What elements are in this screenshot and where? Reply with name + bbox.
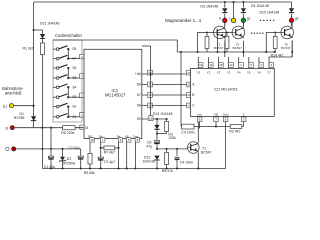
svg-text:Y5: Y5 xyxy=(247,71,251,75)
svg-text:D3 1N4148: D3 1N4148 xyxy=(201,4,219,8)
svg-text:C2 47µ: C2 47µ xyxy=(68,146,79,150)
svg-text:13: 13 xyxy=(148,93,152,97)
svg-text:S8: S8 xyxy=(72,47,76,51)
svg-text:R5 56k: R5 56k xyxy=(84,171,95,175)
svg-text:C4 100n: C4 100n xyxy=(181,130,194,134)
svg-text:L: L xyxy=(229,17,231,21)
svg-text:S4: S4 xyxy=(72,85,76,89)
svg-text:14: 14 xyxy=(209,63,213,67)
svg-text:Y1: Y1 xyxy=(207,71,211,75)
svg-text:Z: Z xyxy=(243,112,245,116)
svg-text:g4: g4 xyxy=(295,17,299,21)
svg-text:S2: S2 xyxy=(72,105,76,109)
svg-text:anschluß: anschluß xyxy=(5,91,22,96)
svg-text:MC145027: MC145027 xyxy=(105,93,126,98)
svg-text:BY296: BY296 xyxy=(14,116,25,120)
svg-text:15: 15 xyxy=(149,116,153,120)
svg-text:14: 14 xyxy=(148,104,152,108)
svg-text:100k: 100k xyxy=(168,136,176,140)
svg-text:Y6: Y6 xyxy=(257,71,261,75)
svg-text:Inh: Inh xyxy=(198,112,203,116)
svg-text:Y0: Y0 xyxy=(196,71,200,75)
svg-text:D8: D8 xyxy=(137,104,141,108)
svg-text:10: 10 xyxy=(90,138,94,142)
svg-text:Codierschalter: Codierschalter xyxy=(55,33,83,38)
svg-text:ZPD5V6: ZPD5V6 xyxy=(62,161,75,165)
svg-text:C4 100n: C4 100n xyxy=(180,161,193,165)
svg-text:Y3: Y3 xyxy=(227,71,231,75)
svg-text:R7 4k7: R7 4k7 xyxy=(104,150,115,154)
svg-text:Y4: Y4 xyxy=(237,71,241,75)
svg-text:S6: S6 xyxy=(72,66,76,70)
svg-text:Di: Di xyxy=(85,126,88,130)
svg-text:D13 1N4148: D13 1N4148 xyxy=(153,112,173,116)
svg-text:Y7: Y7 xyxy=(267,71,271,75)
svg-text:D7: D7 xyxy=(137,93,141,97)
svg-text:BC547: BC547 xyxy=(281,46,291,50)
svg-text:Y2: Y2 xyxy=(217,71,221,75)
svg-text:r1: r1 xyxy=(219,17,222,21)
svg-text:D11 1N4148: D11 1N4148 xyxy=(40,22,59,26)
svg-text:12: 12 xyxy=(229,63,233,67)
svg-text:1N4148: 1N4148 xyxy=(143,160,155,164)
svg-text:13: 13 xyxy=(199,63,203,67)
svg-text:C3 4µ7: C3 4µ7 xyxy=(104,160,115,164)
svg-text:B: B xyxy=(192,93,194,97)
svg-text:+Ub: +Ub xyxy=(135,72,141,76)
svg-text:(L): (L) xyxy=(3,104,7,108)
svg-text:D4 1N4148: D4 1N4148 xyxy=(251,4,269,8)
svg-text:R8 47k: R8 47k xyxy=(162,169,173,173)
svg-text:BC547: BC547 xyxy=(233,46,243,50)
svg-text:15: 15 xyxy=(219,63,223,67)
svg-text:D10 1N4148: D10 1N4148 xyxy=(260,11,280,15)
svg-text:BC547: BC547 xyxy=(201,151,212,155)
svg-text:VE: VE xyxy=(214,112,218,116)
svg-text:D9: D9 xyxy=(137,117,141,121)
svg-text:D6: D6 xyxy=(137,83,141,87)
svg-text:g1: g1 xyxy=(247,17,251,21)
svg-text:R6 220k: R6 220k xyxy=(61,131,74,135)
svg-text:R2 4k7: R2 4k7 xyxy=(229,130,240,134)
svg-text:Magnetartikel 1...4: Magnetartikel 1...4 xyxy=(165,18,202,23)
svg-text:Gnd: Gnd xyxy=(223,112,229,116)
svg-text:12: 12 xyxy=(148,83,152,87)
svg-text:R1 2k7: R1 2k7 xyxy=(23,47,34,51)
svg-text:BC547: BC547 xyxy=(214,46,224,50)
svg-text:IC2 MC14051: IC2 MC14051 xyxy=(214,88,237,92)
svg-text:47µ: 47µ xyxy=(146,145,152,149)
